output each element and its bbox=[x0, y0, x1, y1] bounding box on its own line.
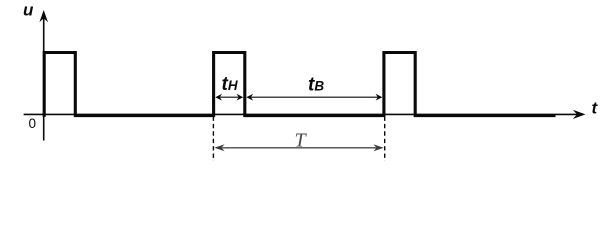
dimension arrow tB right head bbox=[376, 94, 383, 101]
dashed extension line left bbox=[212, 117, 214, 162]
svg-text:tH: tH bbox=[222, 74, 238, 95]
svg-text:tB: tB bbox=[308, 74, 324, 95]
dimension arrow tB left head bbox=[246, 94, 253, 101]
svg-text:u: u bbox=[23, 1, 34, 20]
svg-text:0: 0 bbox=[29, 116, 37, 131]
x-axis t bbox=[24, 113, 578, 115]
dimension arrow tH right head bbox=[237, 94, 244, 101]
svg-text:t: t bbox=[592, 99, 599, 118]
y-axis u bbox=[43, 12, 45, 141]
dashed extension line right bbox=[384, 117, 386, 162]
y-axis arrowhead bbox=[39, 10, 48, 22]
dimension arrow tH left head bbox=[215, 94, 222, 101]
dimension arrow tB line bbox=[248, 96, 382, 98]
svg-text:T: T bbox=[295, 130, 308, 152]
period T left head bbox=[214, 144, 224, 151]
x-axis arrowhead bbox=[573, 110, 586, 119]
period T arrow line bbox=[216, 147, 382, 149]
waveform pulse train bbox=[44, 53, 555, 117]
period T right head bbox=[373, 144, 383, 151]
dimension arrow tH line bbox=[217, 96, 242, 98]
